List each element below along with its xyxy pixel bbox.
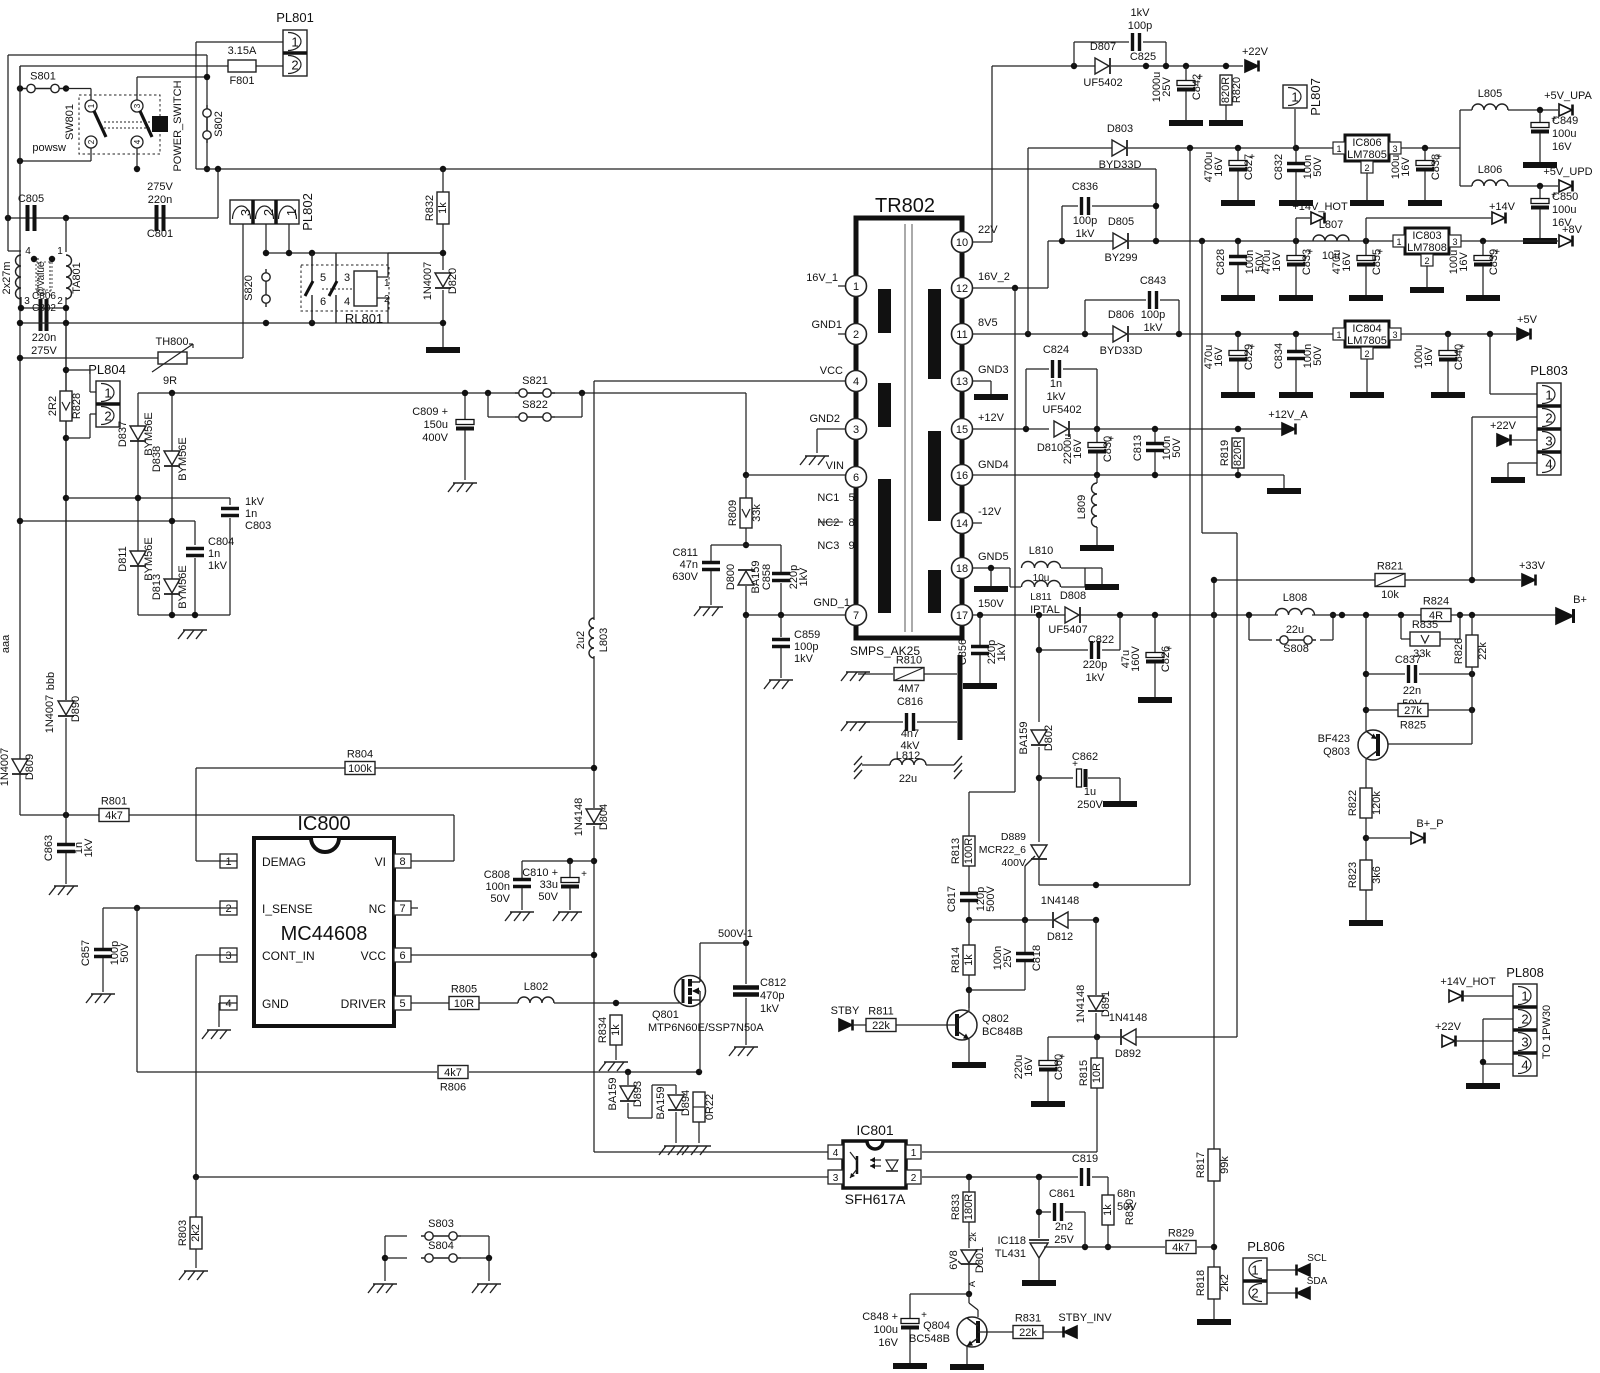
svg-text:4n7: 4n7: [901, 728, 919, 740]
svg-text:BC848B: BC848B: [982, 1026, 1023, 1038]
transformer pin 15: [952, 419, 973, 440]
svg-text:C813: C813: [1132, 435, 1144, 461]
wire C832 bottom: [1295, 172, 1297, 200]
power flag SDA: [1297, 1276, 1328, 1299]
capacitor C836: [1082, 197, 1089, 215]
svg-text:6: 6: [853, 472, 859, 484]
svg-text:2: 2: [853, 329, 859, 341]
transistor Q804 BC548B: [909, 1317, 987, 1347]
svg-text:C840: C840: [1453, 344, 1465, 370]
wire R832 top: [442, 169, 444, 192]
svg-text:+: +: [581, 869, 587, 880]
wire C828 drop: [1237, 241, 1239, 255]
junction C842: [1183, 63, 1189, 69]
diode D820 1N4007: [435, 273, 451, 288]
svg-text:220n: 220n: [148, 194, 172, 206]
junction pin3: [18, 305, 24, 311]
jumper S804: [421, 1240, 461, 1262]
ground bar R823: [1349, 920, 1383, 926]
junction C836 left: [1059, 238, 1065, 244]
wire R833 top: [968, 1177, 970, 1192]
IC800 pin 3: [220, 948, 237, 962]
svg-text:D801: D801: [974, 1247, 986, 1273]
junction C862: [1036, 775, 1042, 781]
wire R817 to R818: [1213, 1181, 1215, 1268]
svg-text:100k: 100k: [348, 763, 372, 775]
wire PL807 down: [1294, 109, 1296, 148]
resistor R822: [1347, 788, 1383, 818]
svg-text:IPTAL: IPTAL: [1030, 604, 1060, 616]
zener diode D801 6V8: [948, 1247, 986, 1273]
junction y521 left: [17, 518, 23, 524]
IC800 pin 2: [220, 901, 237, 915]
junction C824 left: [1023, 426, 1029, 432]
wire HV bus y393 right: [582, 393, 746, 475]
inductor L812: [890, 759, 926, 765]
ground bar D820: [426, 347, 460, 353]
svg-text:C801: C801: [147, 228, 173, 240]
svg-text:630V: 630V: [672, 571, 698, 583]
svg-text:C812: C812: [760, 977, 786, 989]
svg-text:PL806: PL806: [1247, 1239, 1285, 1254]
transformer TR802 primary winding 6-7: [878, 479, 891, 613]
power flag +8V: [1559, 224, 1583, 247]
wire IC801 pin3 long: [196, 1176, 828, 1178]
wire Q803 col: [1365, 615, 1367, 731]
chassis ground C863: [49, 886, 78, 895]
svg-text:SW801: SW801: [64, 104, 76, 140]
svg-text:+8V: +8V: [1562, 224, 1583, 236]
svg-text:2: 2: [104, 409, 111, 424]
svg-text:2: 2: [57, 296, 63, 307]
wire D889 gate: [1024, 866, 1026, 920]
wire lower mains y323: [20, 322, 443, 324]
svg-text:3: 3: [1521, 1035, 1528, 1050]
jumper S821: [515, 375, 555, 397]
junction drain col: [743, 612, 749, 618]
svg-text:22n: 22n: [1403, 685, 1421, 697]
svg-text:4: 4: [225, 998, 231, 1010]
svg-text:100n: 100n: [486, 881, 510, 893]
svg-text:16V: 16V: [1552, 141, 1572, 153]
junction relay wire R832: [440, 250, 446, 256]
junction th800 left: [17, 355, 23, 361]
wire IC806 out: [1401, 147, 1460, 149]
svg-text:R806: R806: [440, 1082, 466, 1094]
svg-text:50V: 50V: [538, 891, 558, 903]
svg-text:Q801: Q801: [652, 1009, 679, 1021]
svg-text:+33V: +33V: [1519, 560, 1546, 572]
transistor Q803 BF423: [1318, 730, 1388, 760]
svg-text:BYM56E: BYM56E: [177, 565, 189, 608]
svg-text:470u: 470u: [1261, 250, 1273, 274]
svg-text:C838: C838: [1430, 154, 1442, 180]
polarized cap C829: [1229, 342, 1255, 362]
jumper S801: [23, 71, 63, 93]
svg-text:1N4007: 1N4007: [0, 748, 11, 787]
wire C830 bottom: [1096, 453, 1098, 475]
diode D894 BA159: [668, 1095, 684, 1110]
power flag STBY: [831, 1005, 860, 1031]
wire R801 to VI: [129, 815, 454, 861]
junction D838 D813: [169, 518, 175, 524]
svg-text:50V: 50V: [1312, 346, 1324, 366]
relay coil: [322, 271, 390, 306]
wire C818 loop: [969, 962, 1025, 990]
ground bar L809: [1080, 545, 1114, 551]
wire TL431 anode: [1038, 1258, 1040, 1280]
svg-text:C849: C849: [1552, 115, 1578, 127]
svg-text:BA159: BA159: [607, 1077, 619, 1110]
wire C826 drop: [1154, 615, 1156, 652]
transformer pin 18: [952, 558, 973, 579]
svg-text:100p: 100p: [1073, 215, 1097, 227]
wire Q804 base: [978, 1331, 1013, 1333]
wire C826 bottom: [1154, 663, 1156, 697]
svg-text:D890: D890: [70, 696, 82, 722]
wire mains cap row: [8, 169, 218, 218]
wire opto feed: [1202, 241, 1237, 1037]
svg-text:C834: C834: [1273, 343, 1285, 369]
svg-text:6: 6: [320, 296, 326, 308]
svg-text:S804: S804: [428, 1240, 454, 1252]
wire S804 row: [385, 1257, 407, 1259]
wire C855 drop: [1365, 241, 1367, 255]
svg-text:C861: C861: [1049, 1188, 1075, 1200]
svg-text:NC2 8: NC2 8: [817, 517, 854, 529]
transformer pin 13: [952, 371, 973, 392]
wire L808 out: [1312, 614, 1422, 616]
wire IC804 gnd: [1366, 359, 1368, 392]
svg-text:100p: 100p: [794, 641, 818, 653]
svg-text:+22V: +22V: [1435, 1021, 1462, 1033]
resistor R803: [177, 1217, 202, 1249]
svg-text:B+_P: B+_P: [1416, 818, 1443, 830]
transistor Q802 BC848B: [947, 1010, 1023, 1040]
resistor R818: [1195, 1267, 1231, 1299]
svg-text:BF423: BF423: [1318, 733, 1350, 745]
wire S803 left col: [384, 1236, 386, 1281]
wire C861 row: [1039, 1211, 1051, 1213]
wire C808 drop: [521, 861, 523, 878]
junction C801 rail riser: [215, 166, 221, 172]
resistor R801: [99, 796, 129, 823]
svg-text:150V: 150V: [978, 598, 1004, 610]
svg-text:D894: D894: [680, 1090, 692, 1116]
wire C809 bottom: [464, 430, 466, 480]
svg-text:5: 5: [320, 272, 326, 284]
svg-text:1k: 1k: [1102, 1204, 1114, 1216]
wire pin17 rail: [972, 614, 1278, 616]
svg-text:2: 2: [225, 903, 231, 915]
svg-text:16V_2: 16V_2: [978, 271, 1010, 283]
junction C843 left: [1082, 331, 1088, 337]
junction PL808 gnd: [1480, 1059, 1486, 1065]
svg-text:C836: C836: [1072, 181, 1098, 193]
wire vcc cap row: [522, 860, 594, 862]
wire C842 bottom: [1185, 91, 1187, 120]
wire R834 bottom: [615, 1045, 617, 1060]
svg-text:IC806: IC806: [1352, 137, 1381, 149]
wire C811 drop: [710, 545, 712, 561]
power flag +22V: [1242, 46, 1269, 72]
IC800 pin 6: [394, 948, 411, 962]
plate electrode: [958, 655, 963, 740]
svg-text:1kV: 1kV: [1047, 391, 1067, 403]
wire D812 out: [1068, 919, 1096, 921]
inductor L808: [1276, 609, 1315, 616]
wire C809 top: [464, 393, 466, 419]
wire S804 right: [461, 1257, 489, 1259]
junction R834: [613, 1000, 619, 1006]
svg-text:22u: 22u: [899, 773, 917, 785]
svg-text:3: 3: [853, 424, 859, 436]
ground bar C826: [1138, 697, 1172, 703]
svg-text:3: 3: [1392, 144, 1397, 154]
svg-text:DEMAG: DEMAG: [262, 855, 306, 869]
wire D892 out: [1136, 1036, 1237, 1038]
wire C838 drop: [1424, 148, 1426, 160]
wire PL808 gnd: [1482, 1064, 1484, 1083]
wire C829 drop: [1237, 334, 1239, 350]
svg-text:VI: VI: [375, 855, 386, 869]
wire R822 bottom: [1365, 818, 1367, 860]
svg-text:C827: C827: [1243, 154, 1255, 180]
wire I_SENSE: [103, 907, 237, 909]
IC800 pin 5: [394, 996, 411, 1010]
transformer pin 2: [846, 324, 867, 345]
transformer pin 7: [846, 605, 867, 626]
svg-text:D800: D800: [725, 564, 737, 590]
ground bar C838: [1408, 200, 1442, 206]
wire C832 drop: [1295, 148, 1297, 162]
wire bridge y521: [20, 521, 195, 545]
power flag B+: [1556, 594, 1587, 624]
wire PL801 pin1 to bus: [196, 42, 283, 169]
svg-text:470u: 470u: [1203, 345, 1215, 369]
svg-text:1: 1: [225, 856, 231, 868]
svg-text:3: 3: [1392, 330, 1397, 340]
junction left leg C805: [5, 215, 11, 221]
diode D838 BYM56E: [164, 451, 180, 466]
polarized cap C862: [1072, 759, 1087, 787]
svg-text:S821: S821: [522, 375, 548, 387]
capacitor C811: [702, 563, 720, 570]
wire L805 out: [1508, 109, 1558, 111]
svg-text:D802: D802: [1043, 725, 1055, 751]
svg-text:A: A: [967, 1281, 977, 1287]
inductor L802: [518, 997, 554, 1003]
wire switch pole4 down: [136, 148, 138, 169]
wire PL803 pin1 feed: [1490, 334, 1537, 394]
wire C825 right: [1143, 42, 1166, 66]
IC801 pin 2: [906, 1170, 921, 1184]
junction C843 right: [1176, 331, 1182, 337]
svg-text:C842: C842: [1191, 74, 1203, 100]
svg-text:17: 17: [956, 610, 968, 622]
inductor L806: [1472, 180, 1508, 186]
resistor R8 0R22: [693, 1092, 705, 1122]
junction C822 D802: [1036, 647, 1042, 653]
svg-text:C843: C843: [1140, 275, 1166, 287]
junction C827: [1235, 145, 1241, 151]
wire fb row: [922, 1176, 1078, 1178]
junction pole4 bus: [134, 166, 140, 172]
svg-text:S803: S803: [428, 1218, 454, 1230]
junction C806 top left: [31, 256, 37, 262]
wire pin16 rail: [972, 475, 1284, 488]
junction R820: [1223, 63, 1229, 69]
capacitor C858: [772, 574, 790, 581]
ground bar IC803: [1410, 287, 1444, 293]
chassis ground C857: [86, 994, 115, 1003]
svg-text:BA159: BA159: [1018, 721, 1030, 754]
svg-text:L807: L807: [1319, 219, 1343, 231]
resistor R833: [950, 1192, 975, 1222]
junction C826: [1152, 612, 1158, 618]
svg-text:100p: 100p: [1128, 20, 1152, 32]
diode D800 BA159: [738, 570, 754, 585]
wire PL803 pin2: [1472, 417, 1537, 580]
junction C830: [1094, 426, 1100, 432]
wire R811 to base: [896, 1024, 957, 1026]
wire C813 bottom: [1154, 452, 1156, 475]
wire x66 PL804 section: [65, 323, 67, 700]
wire IC803 out: [1461, 240, 1558, 242]
polarized cap C839: [1474, 247, 1500, 267]
junction crowbar line: [1187, 145, 1193, 151]
wire C857 drop: [102, 908, 104, 948]
svg-text:1k: 1k: [610, 1024, 622, 1036]
wire C856 drop: [979, 615, 981, 645]
svg-text:99k: 99k: [1219, 1156, 1231, 1174]
resistor R805: [449, 984, 479, 1011]
wire C818 top: [1024, 920, 1026, 952]
svg-text:BC548B: BC548B: [909, 1333, 950, 1345]
svg-text:GND4: GND4: [978, 459, 1009, 471]
svg-text:GND: GND: [262, 997, 289, 1011]
wire C827 drop: [1237, 148, 1239, 160]
svg-text:R830: R830: [1124, 1199, 1136, 1225]
chassis ground C812: [729, 1047, 758, 1056]
svg-text:220p: 220p: [1083, 659, 1107, 671]
junction R825 left: [1363, 707, 1369, 713]
svg-text:22u: 22u: [1286, 624, 1304, 636]
IC IC804 LM7805: [1333, 321, 1401, 359]
svg-text:2: 2: [1364, 163, 1369, 173]
wire th800 row: [20, 357, 158, 359]
svg-text:1n: 1n: [208, 548, 220, 560]
relay RL801 block: [301, 265, 389, 326]
junction source: [696, 1069, 702, 1075]
ground bar C840: [1431, 392, 1465, 398]
wire C819 out: [1092, 1177, 1108, 1195]
junction D893: [625, 1069, 631, 1075]
wire B+_P tap: [1366, 837, 1410, 839]
svg-text:C837: C837: [1395, 654, 1421, 666]
wire C862 right: [1088, 778, 1120, 801]
polarized cap C838: [1416, 152, 1442, 172]
junction C818 bottom: [966, 987, 972, 993]
svg-text:R826: R826: [1453, 638, 1465, 664]
junction PL802 pin1: [286, 250, 292, 256]
resistor R835: [1410, 619, 1440, 660]
junction vcc caps: [591, 858, 597, 864]
wire GND5: [972, 567, 1010, 569]
svg-text:1: 1: [1545, 388, 1552, 403]
svg-text:VIN: VIN: [826, 460, 844, 472]
svg-text:BA159: BA159: [655, 1086, 667, 1119]
wire C840 drop: [1447, 334, 1449, 350]
svg-text:100R: 100R: [963, 838, 975, 864]
ground bar PL803: [1491, 477, 1525, 483]
svg-text:SDA: SDA: [1307, 1276, 1328, 1287]
svg-text:CONT_IN: CONT_IN: [262, 949, 315, 963]
junction S801 left: [17, 85, 23, 91]
svg-text:R825: R825: [1400, 720, 1426, 732]
junction C840: [1445, 331, 1451, 337]
svg-text:8V5: 8V5: [978, 317, 998, 329]
junction C813 gnd: [1152, 472, 1158, 478]
wire R823 bottom: [1365, 890, 1367, 920]
junction vcc pin6: [591, 952, 597, 958]
junction C832 PL807: [1293, 145, 1299, 151]
svg-text:2: 2: [1545, 411, 1552, 426]
chassis ground D894: [659, 1146, 688, 1155]
svg-text:1: 1: [1336, 144, 1341, 154]
wire C824 loop: [1026, 369, 1049, 429]
svg-text:S822: S822: [522, 399, 548, 411]
svg-text:C809 +: C809 +: [412, 406, 448, 418]
resistor R825: [1398, 704, 1428, 732]
junction R819 gnd: [1235, 472, 1241, 478]
polarized cap C833: [1287, 247, 1313, 267]
wire R821 row: [1214, 579, 1375, 581]
wire C834 bottom: [1295, 360, 1297, 392]
svg-text:250V: 250V: [1077, 799, 1103, 811]
junction VIN: [743, 472, 749, 478]
svg-text:1: 1: [1396, 237, 1401, 247]
ground bar C850: [1523, 238, 1557, 244]
svg-text:2k: 2k: [968, 1232, 978, 1242]
wire R805 to L802: [479, 1002, 518, 1004]
svg-text:C829: C829: [1243, 344, 1255, 370]
junction D837 D811: [135, 495, 141, 501]
wire split down: [1460, 148, 1472, 186]
svg-text:120k: 120k: [1371, 791, 1383, 815]
resistor R834: [597, 1015, 622, 1045]
wire PL808 pin4: [1483, 1063, 1513, 1065]
svg-text:IC803: IC803: [1412, 230, 1441, 242]
svg-text:2u2: 2u2: [575, 631, 587, 649]
diode D892 1N4148: [1121, 1029, 1136, 1045]
capacitor C817: [960, 894, 978, 901]
svg-text:2: 2: [261, 209, 276, 216]
svg-text:MCR22_6: MCR22_6: [979, 844, 1026, 856]
junction Q803 col: [1363, 612, 1369, 618]
ground bar L810: [1085, 584, 1119, 590]
junction C804 bottom: [192, 612, 198, 618]
svg-text:1: 1: [284, 209, 299, 216]
svg-text:PL802: PL802: [300, 193, 315, 231]
wire pin7 row: [746, 614, 846, 616]
svg-text:C850: C850: [1552, 191, 1578, 203]
wire bridge bottom y615: [138, 614, 230, 616]
wire 8V5 riser: [1028, 148, 1113, 334]
wire R825 left: [1366, 709, 1398, 711]
svg-text:D806: D806: [1108, 309, 1134, 321]
svg-text:1: 1: [104, 386, 111, 401]
